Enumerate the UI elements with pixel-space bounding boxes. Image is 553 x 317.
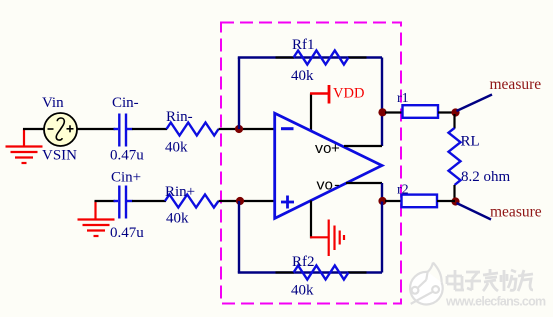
wire GND2 to Cin+ — [95, 200, 116, 202]
svg-text:40k: 40k — [291, 283, 314, 299]
wire Rin+ to op-amp non-inverting input — [219, 200, 276, 202]
wire feedback top (horizontal) — [238, 56, 382, 58]
char you — [518, 270, 533, 291]
char shao — [501, 270, 516, 291]
svg-text:0.47u: 0.47u — [110, 225, 144, 241]
svg-text:40k: 40k — [291, 68, 314, 84]
svg-text:8.2 ohm: 8.2 ohm — [461, 169, 511, 185]
char dian — [447, 270, 464, 290]
watermark logo circle — [410, 263, 443, 305]
watermark chinese text (approximated strokes) — [447, 269, 533, 291]
wire feedback bottom (left vertical) — [238, 201, 240, 273]
wire r1 to out+ node — [438, 111, 456, 113]
resistor r1 — [403, 105, 439, 118]
power VDD wire — [310, 94, 312, 132]
Rf1 pin stubs — [276, 56, 295, 58]
junction node vo- — [378, 197, 386, 205]
ground GND1 (at source) — [6, 129, 43, 164]
source minus sign — [48, 128, 54, 130]
svg-text:0.47u: 0.47u — [110, 148, 144, 164]
wire out+ to RL — [453, 114, 455, 129]
svg-text:Cin-: Cin- — [112, 95, 139, 111]
char zi — [465, 272, 481, 290]
svg-text:Vin: Vin — [42, 95, 64, 111]
svg-text:Rin+: Rin+ — [165, 184, 195, 200]
ground at op-amp bottom (rotated symbol) — [310, 220, 344, 257]
svg-text:RL: RL — [461, 134, 480, 150]
wire measure stub (top) — [457, 95, 493, 112]
char fa — [483, 269, 498, 291]
svg-text:r2: r2 — [397, 183, 409, 198]
svg-text:measure: measure — [490, 76, 542, 93]
wire r2 to out- node — [437, 200, 455, 202]
wire measure stub (bottom) — [457, 203, 492, 220]
junction node in- — [235, 125, 243, 133]
junction node out- — [451, 197, 459, 205]
svg-text:Cin+: Cin+ — [111, 170, 141, 186]
resistor Rf2 — [294, 266, 349, 280]
wire feedback top (right vertical down to vo+) — [381, 58, 383, 147]
junction node out+ — [451, 108, 459, 116]
junction node in+ — [236, 197, 244, 205]
wire Cin- to Rin- — [132, 128, 167, 130]
svg-text:measure: measure — [490, 204, 542, 221]
wire Rin- to op-amp inverting input — [219, 128, 276, 130]
op-amp inverting input symbol — [281, 127, 294, 130]
wire feedback bottom (right vertical) — [381, 202, 383, 273]
capacitor Cin- — [114, 114, 133, 147]
Rf2 pin stubs — [276, 271, 295, 273]
wire Cin+ to Rin+ — [132, 200, 166, 202]
resistor Rin+ — [165, 195, 219, 208]
wire source to Cin- — [77, 128, 115, 130]
power VDD symbol — [310, 92, 328, 95]
wire vo+ to r1 — [385, 111, 403, 113]
wire feedback top (left vertical) — [238, 58, 240, 130]
op-amp non-inverting input symbol — [281, 201, 294, 204]
svg-text:r1: r1 — [397, 91, 409, 106]
svg-text:vo+: vo+ — [315, 141, 340, 158]
svg-text:vo-: vo- — [316, 178, 341, 195]
junction node vo+ — [378, 108, 386, 116]
wire RL to out- — [453, 185, 455, 201]
ground GND2 (at Cin+) — [78, 201, 115, 236]
wire vo+ output (horizontal) — [344, 145, 382, 147]
wire feedback bottom (horizontal) — [238, 271, 382, 273]
wire vo- down to node — [381, 183, 383, 202]
wire GND1 to source — [23, 128, 45, 130]
svg-text:Rf2: Rf2 — [292, 254, 315, 270]
resistor Rin- — [167, 123, 219, 136]
source V1 VSIN circle — [44, 113, 77, 146]
source sine squiggle — [56, 118, 64, 140]
svg-text:40k: 40k — [166, 211, 189, 227]
dashed amplifier boundary box — [221, 23, 401, 304]
resistor Rf1 — [294, 51, 349, 65]
resistor r2 — [402, 195, 438, 208]
capacitor Cin+ — [114, 186, 133, 219]
svg-text:www.elecfans.com: www.elecfans.com — [445, 295, 546, 309]
source plus sign — [67, 128, 74, 130]
resistor RL — [449, 128, 461, 185]
svg-text:VDD: VDD — [333, 86, 364, 102]
wire vo- to r2 — [385, 200, 402, 202]
svg-text:Rin-: Rin- — [166, 109, 193, 125]
ground at op-amp bottom pin (wire) — [310, 201, 312, 239]
wire vo- output (horizontal) — [346, 182, 382, 184]
svg-text:40k: 40k — [165, 140, 188, 156]
op-amp U1 triangle — [275, 113, 382, 218]
svg-text:VSIN: VSIN — [42, 148, 77, 164]
svg-text:Rf1: Rf1 — [292, 37, 315, 53]
